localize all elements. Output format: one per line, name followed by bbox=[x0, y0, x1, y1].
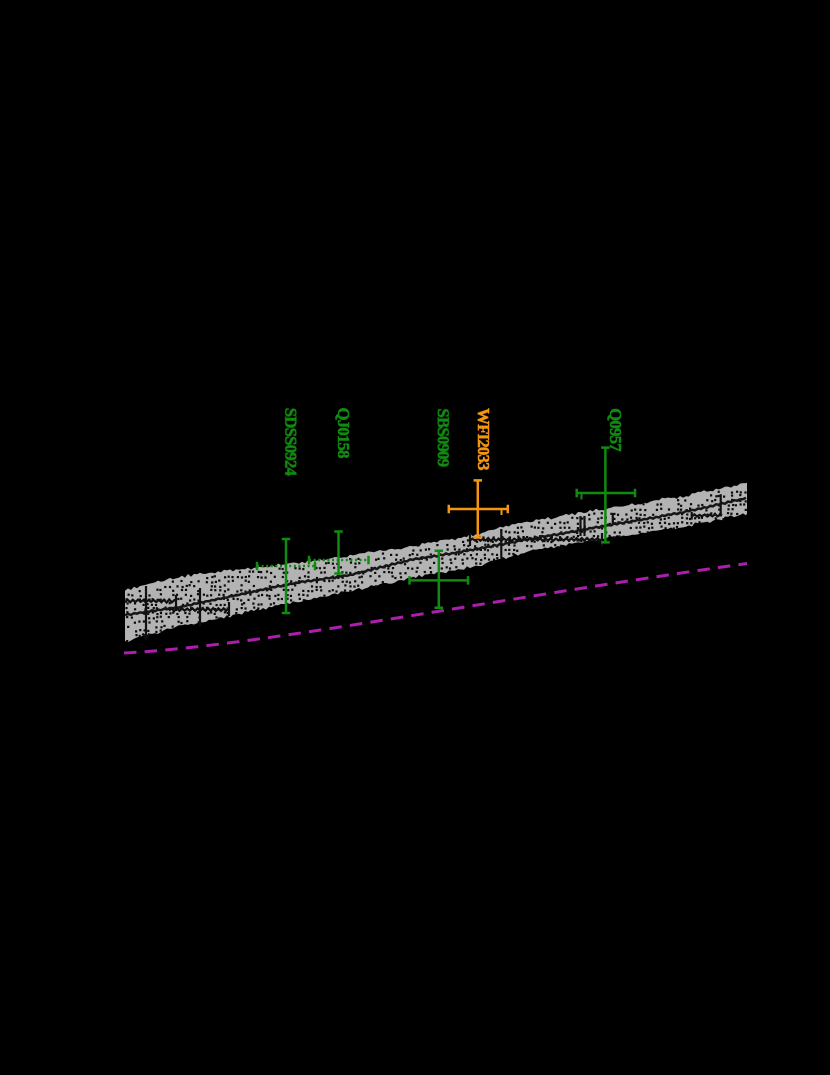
black errorbar cross B horizontal bbox=[169, 608, 229, 611]
confidence band (stippled gray) bbox=[125, 483, 747, 643]
svg-text:SDSS0924: SDSS0924 bbox=[282, 408, 301, 477]
black errorbar cross A right cap bbox=[175, 595, 177, 611]
data point SBS0909: horizontal caps bbox=[410, 576, 469, 585]
data point SDSS0924: horizontal error bar bbox=[257, 565, 315, 568]
data point SDSS0924: vertical caps bbox=[282, 539, 291, 613]
data point SBS0909: vertical caps bbox=[435, 551, 444, 608]
black errorbar cross C left cap bbox=[469, 533, 471, 546]
black errorbar cross A horizontal bbox=[125, 599, 176, 602]
label SBS0909 (rotated) bbox=[434, 409, 453, 467]
svg-text:QJ0158: QJ0158 bbox=[334, 408, 353, 459]
label Q0957 (rotated) bbox=[606, 408, 625, 451]
svg-text:SBS0909: SBS0909 bbox=[434, 409, 453, 467]
black errorbar H left cap bbox=[691, 512, 693, 520]
label QJ0158 (rotated) bbox=[334, 408, 353, 459]
data point WFI2033: horizontal caps bbox=[449, 505, 508, 514]
data point SBS0909: horizontal error bar bbox=[410, 579, 469, 582]
black errorbar cross C right cap bbox=[601, 533, 603, 546]
data point SDSS0924: horizontal caps bbox=[257, 562, 315, 571]
small green tick on Q0957 bar bbox=[581, 493, 583, 500]
black arrowhead A bbox=[143, 634, 150, 640]
svg-text:Q0957: Q0957 bbox=[606, 408, 625, 451]
small orange tick on WFI2033 bar bbox=[501, 509, 503, 515]
best-fit line bbox=[125, 498, 746, 616]
black errorbar cross C horizontal bbox=[470, 538, 602, 541]
label WFI2033 (rotated) bbox=[474, 408, 493, 470]
black errorbar cross B vertical bbox=[199, 588, 201, 626]
data point WFI2033: vertical error bar bbox=[477, 480, 480, 537]
data point WFI2033: horizontal error bar bbox=[449, 508, 508, 511]
data point Q0957: horizontal error bar bbox=[577, 492, 635, 495]
black errorbar H horizontal bbox=[692, 514, 722, 517]
magenta dashed theory line bbox=[124, 564, 747, 654]
black errorbar H vertical bbox=[720, 494, 722, 516]
data point QJ0158: vertical error bar bbox=[337, 532, 340, 574]
black double tick D bbox=[581, 516, 585, 536]
data point QJ0158: vertical caps bbox=[334, 532, 343, 574]
data point WFI2033: vertical caps bbox=[474, 480, 483, 537]
data point Q0957: vertical caps bbox=[601, 448, 610, 543]
data point SDSS0924: vertical error bar bbox=[285, 539, 288, 613]
label SDSS0924 (rotated) bbox=[282, 408, 301, 477]
data point SBS0909: vertical error bar bbox=[438, 551, 441, 608]
data point QJ0158: horizontal caps bbox=[309, 556, 369, 565]
black errorbar cross C vertical bbox=[500, 529, 502, 558]
black errorbar cross B right cap bbox=[228, 602, 230, 616]
data point Q0957: vertical error bar bbox=[604, 448, 607, 543]
black tick E bbox=[612, 513, 614, 524]
svg-text:WFI2033: WFI2033 bbox=[474, 408, 493, 470]
stipple dots bbox=[125, 491, 747, 643]
data point Q0957: horizontal caps bbox=[577, 489, 635, 498]
black errorbar cross A vertical bbox=[145, 586, 147, 637]
data point QJ0158: horizontal error bar bbox=[309, 559, 369, 562]
